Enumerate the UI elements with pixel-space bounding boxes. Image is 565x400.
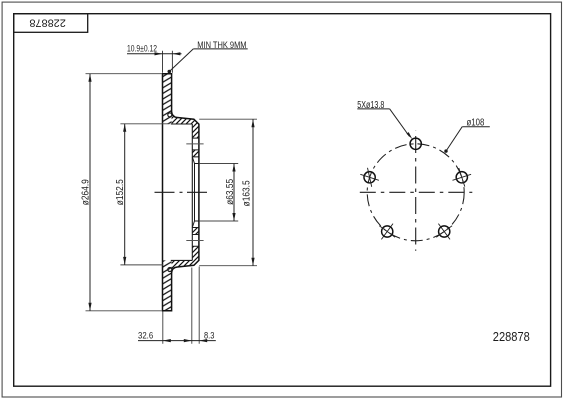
dim Ø264.9 line (89, 74, 91, 311)
dim Ø264.9 arrows (88, 74, 91, 82)
dim Ø63.55 line (233, 164, 235, 222)
bolt hole right-lower (439, 226, 450, 237)
bolt hole right-lower ticks (436, 224, 452, 240)
section centerline (155, 191, 208, 193)
dim Ø63.55 arrows (232, 164, 235, 172)
bolt hole right-upper ticks (453, 168, 472, 187)
bolt hole top edges (192, 138, 199, 150)
dim Ø163.5 arrows (251, 119, 254, 127)
label Ø108 dot (444, 149, 447, 152)
svg-text:ø163.5: ø163.5 (242, 180, 253, 206)
dim Ø152.5 ext lines (120, 124, 169, 265)
svg-text:32.6: 32.6 (138, 330, 153, 341)
dim 32.6 arrows (163, 339, 171, 342)
label Ø108 leader (446, 127, 462, 151)
bolt hole left-upper (364, 172, 375, 183)
svg-text:ø264.9: ø264.9 (80, 179, 91, 205)
hat inner face top (171, 123, 193, 125)
note shelf (193, 48, 247, 50)
dim 10.9±0.12 line (127, 53, 182, 55)
bolt hole centerline bottom (186, 240, 203, 242)
svg-text:ø152.5: ø152.5 (115, 179, 126, 205)
dim 10.9±0.12 arrows (155, 52, 163, 55)
label 5XØ13.8 arrow (407, 132, 413, 139)
fillet circle top (168, 113, 172, 117)
section hatch fill ring (163, 74, 172, 311)
dim Ø152.5 line (124, 124, 126, 265)
bolt hole left-lower (382, 226, 393, 237)
dim 32.6 / 8.3 ext lines (163, 267, 199, 344)
bore hatch boundaries (192, 157, 199, 228)
label Ø108 shelf (462, 126, 490, 128)
dim 32.6 line (138, 340, 216, 342)
dim Ø163.5 ext lines (199, 119, 257, 266)
dim Ø152.5 arrows (123, 124, 126, 132)
svg-text:ø63.55: ø63.55 (225, 179, 236, 205)
bore edges (195, 164, 199, 222)
bolt hole centerline top (186, 143, 203, 145)
svg-text:10.9±0.12: 10.9±0.12 (127, 44, 157, 55)
bolt view horizontal centerline (360, 191, 473, 193)
dim Ø264.9 ext lines (86, 74, 162, 311)
dim Ø163.5 line (252, 119, 254, 266)
fillet circle bottom (168, 268, 172, 272)
svg-text:8.3: 8.3 (204, 330, 214, 341)
svg-text:228878: 228878 (29, 17, 66, 29)
bolt hole right-upper (456, 172, 467, 183)
hat inner face bottom (171, 259, 193, 261)
bolt hole left-upper ticks (360, 168, 379, 187)
bore chamfers (192, 157, 194, 228)
title box (14, 14, 88, 33)
svg-text:228878: 228878 (493, 330, 530, 344)
section outline (163, 74, 199, 311)
label 5XØ13.8 shelf (357, 108, 389, 110)
note leader dot (168, 70, 172, 74)
dim 8.3 arrow (199, 339, 207, 342)
dim 10.9±0.12 ext lines (163, 51, 173, 73)
note leader (170, 49, 194, 71)
bolt hole left-lower ticks (379, 224, 395, 240)
bolt hole bottom edges (192, 235, 199, 247)
bolt hole top (410, 138, 421, 149)
bolt circle (367, 144, 464, 241)
label 5XØ13.8 leader (390, 109, 410, 137)
section hatch fill hat (172, 112, 199, 274)
bolt view vertical centerline (415, 131, 417, 251)
dim Ø63.55 ext lines (199, 164, 238, 222)
hat wall inner face (191, 124, 193, 260)
